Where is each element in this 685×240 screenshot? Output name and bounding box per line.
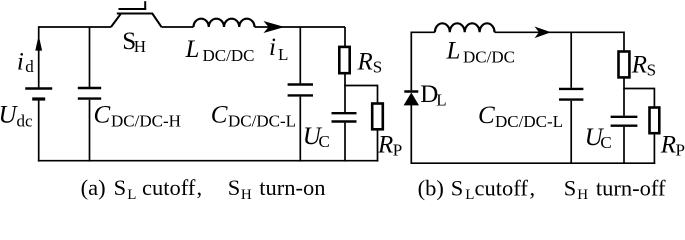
battery U_dc short plate [32,97,45,100]
svg-text:i: i [17,49,24,76]
wire R_P branch lower [377,129,379,161]
svg-text:DC/DC-L: DC/DC-L [495,112,563,131]
wire right branch top [344,27,346,47]
wire left vertical (source branch) [38,26,40,87]
wire inductor to corner (b) [495,31,625,33]
label L_DC/DC (b) [446,37,515,66]
svg-text:R: R [631,52,647,79]
label C_DC/DC-H [94,101,181,130]
wire top-left segment [39,26,111,28]
svg-text:dc: dc [17,112,34,131]
wire R_P branch upper [377,85,379,104]
svg-text:C: C [94,101,111,128]
label R_S (b) [631,52,656,80]
wire capacitor C_DC/DC-H branch lower [89,100,91,162]
wire top-left (b) [411,31,435,33]
wire U_C branch upper (b) [623,89,625,116]
wire below battery [38,99,40,162]
wire left vertical lower (b) [410,104,412,164]
svg-text:L: L [185,36,200,63]
svg-text:(b): (b) [418,176,444,201]
current arrow (b) [535,27,552,39]
svg-text:H: H [577,187,588,203]
caption (b) [418,176,666,204]
svg-text:C: C [600,133,611,152]
svg-text:(a): (a) [81,175,106,200]
svg-text:H: H [134,37,146,56]
label U_C (a) [303,123,330,151]
svg-text:DC/DC-H: DC/DC-H [111,112,181,131]
wire capacitor C_DC/DC-H branch upper [89,27,91,87]
label C_DC/DC-L (b) [478,102,563,131]
caption (a) [81,175,326,203]
svg-text:R: R [377,131,393,158]
svg-text:H: H [241,187,252,203]
svg-text:d: d [25,57,34,76]
svg-text:S: S [373,58,382,77]
diode D_L [404,90,418,93]
svg-text:i: i [269,34,276,61]
svg-text:L: L [278,45,288,64]
wire U_C branch lower (b) [623,127,625,164]
svg-text:P: P [676,140,685,159]
wire right branch top (b) [623,32,625,52]
svg-text:L: L [436,90,446,109]
svg-text:cutoff: cutoff [475,176,529,201]
label R_P (b) [660,131,685,159]
capacitor U_C (a) [332,112,357,114]
wire U_C branch upper [344,86,346,113]
resistor R_S (b) [619,52,630,78]
label U_C (b) [585,124,612,152]
wire below R_S to junction [344,73,346,85]
svg-text:S: S [451,176,464,201]
label i_d [17,49,34,76]
label i_L [269,34,288,64]
current arrow i_L [264,21,285,33]
current arrow i_d [35,35,42,50]
wire left vertical upper (b) [410,32,412,91]
label C_DC/DC-L (a) [211,101,296,130]
wire capacitor branch lower (b) [570,101,572,164]
wire R_P branch upper (b) [653,88,655,108]
inductor L_DC/DC (b) [435,23,495,32]
battery U_dc long plate [25,87,52,89]
label R_P (a) [377,131,402,159]
switch S_H [111,1,162,27]
resistor R_P (a) [372,104,383,130]
resistor R_S (a) [339,47,349,73]
svg-text:C: C [319,132,330,151]
label U_dc [0,102,33,131]
capacitor C_DC/DC-H [78,87,101,89]
label S_H [122,28,146,56]
inductor L_DC/DC (a) [194,19,255,27]
svg-text:S: S [564,176,577,201]
svg-text:L: L [465,187,474,203]
svg-text:L: L [127,187,136,203]
capacitor U_C (b) [611,116,638,118]
wire R_P branch lower (b) [653,133,655,164]
svg-text:turn-off: turn-off [596,176,666,201]
capacitor C_DC/DC-L (b) [559,88,583,90]
label D_L [420,81,446,109]
svg-text:S: S [114,175,127,200]
wire below R_S to junction (b) [623,77,625,88]
wire junction horizontal (b) [623,88,654,90]
svg-text:S: S [228,175,241,200]
svg-text:DC/DC: DC/DC [203,46,255,65]
wire U_C branch lower [344,123,346,162]
svg-text:,: , [197,175,203,200]
wire bottom (b) [411,162,656,164]
svg-text:R: R [357,49,373,76]
wire junction horizontal to R_P branch [344,85,377,87]
svg-text:P: P [393,140,402,159]
wire capacitor C_DC/DC-L branch upper [299,27,301,83]
wire inductor to node [255,26,346,28]
svg-text:turn-on: turn-on [259,175,325,200]
svg-text:R: R [660,131,676,158]
svg-text:L: L [446,37,461,64]
svg-text:S: S [647,61,656,80]
wire capacitor branch upper (b) [570,32,572,88]
wire capacitor C_DC/DC-L branch lower [299,97,301,162]
wire between switch and inductor [162,26,194,28]
svg-text:cutoff: cutoff [142,175,196,200]
svg-text:,: , [530,176,536,201]
svg-text:C: C [478,102,495,129]
wire bottom (a) [38,160,378,162]
label L_DC/DC (a) [185,36,255,65]
label R_S (a) [357,49,383,77]
svg-text:DC/DC-L: DC/DC-L [228,112,296,131]
svg-text:C: C [211,101,228,128]
resistor R_P (b) [650,108,660,134]
capacitor C_DC/DC-L (a) [288,83,313,85]
svg-text:DC/DC: DC/DC [463,47,515,66]
